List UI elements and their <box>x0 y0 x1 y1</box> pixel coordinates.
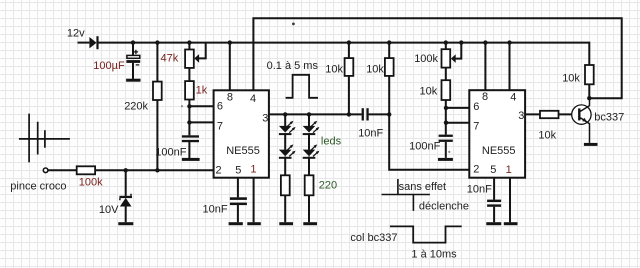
IC U1 NE555 <box>214 90 269 177</box>
svg-text:1: 1 <box>506 164 512 176</box>
svg-text:10V: 10V <box>99 204 119 216</box>
svg-text:10k: 10k <box>562 73 580 85</box>
ground (under 100uF) <box>126 79 140 82</box>
svg-text:100µF: 100µF <box>93 60 125 72</box>
svg-text:7: 7 <box>217 121 223 133</box>
wire 100k wiper <box>455 43 462 59</box>
wire pin7 U2 <box>446 122 469 124</box>
capacitor 10nF U2 pin5 <box>487 200 501 207</box>
svg-text:2: 2 <box>216 165 222 177</box>
svg-text:NE555: NE555 <box>482 145 516 157</box>
resistor 220k <box>153 82 162 100</box>
svg-text:100k: 100k <box>414 53 438 65</box>
wire 100k to pin2 U1 <box>95 169 213 171</box>
wire pin6 U1 <box>189 105 213 107</box>
svg-text:1: 1 <box>250 164 256 176</box>
capacitor C2 100nF <box>182 135 199 142</box>
svg-text:10nF: 10nF <box>203 204 228 216</box>
svg-text:100nF: 100nF <box>155 147 186 159</box>
resistor 220 led1 <box>281 175 290 195</box>
ground (under zener) <box>118 222 133 225</box>
svg-text:1k: 1k <box>196 85 208 97</box>
resistor 10k collector <box>585 65 594 84</box>
svg-text:10nF: 10nF <box>358 128 383 140</box>
waveform 1 a 10ms <box>390 226 462 242</box>
svg-text:0.1 à 5 ms: 0.1 à 5 ms <box>267 60 319 72</box>
ground (under 100nF U1) <box>182 158 200 161</box>
svg-text:2: 2 <box>473 164 479 176</box>
resistor 10k U2 timing <box>442 80 451 100</box>
svg-text:pince croco: pince croco <box>10 180 66 192</box>
svg-text:10k: 10k <box>325 64 343 76</box>
terminal pince croco <box>43 168 48 173</box>
wire pin8 U1 <box>229 43 231 90</box>
resistor 10k R4 <box>345 58 354 76</box>
svg-text:47k: 47k <box>161 53 179 65</box>
ground (led chain 1) <box>279 222 293 225</box>
svg-text:100k: 100k <box>79 176 103 188</box>
LED D5 <box>303 144 320 158</box>
potentiometer 100k <box>442 49 456 67</box>
wire pin5 U2 to 10nF <box>493 178 495 223</box>
ground (pin1 U1) <box>247 222 260 225</box>
svg-text:5: 5 <box>490 164 496 176</box>
svg-text:3: 3 <box>262 113 268 125</box>
wire coupling node to pin2 U2 <box>389 114 469 169</box>
pince croco sketch <box>19 114 70 163</box>
svg-text:100nF: 100nF <box>409 141 440 153</box>
svg-text:3: 3 <box>518 110 524 122</box>
svg-text:8: 8 <box>227 91 233 103</box>
wire pince croco to 100k <box>48 169 77 171</box>
svg-text:220: 220 <box>319 180 337 192</box>
svg-text:bc337: bc337 <box>594 112 624 124</box>
resistor 100k input <box>77 166 95 174</box>
wire 12v input <box>78 42 90 44</box>
wire pin5 U1 to 10nF <box>237 178 239 223</box>
wire pin8 U2 <box>484 43 486 90</box>
ground (emitter) <box>584 143 598 146</box>
ground (pin5 U2) <box>486 222 501 225</box>
node pin6 pin7 U2 junctions <box>444 106 448 110</box>
wire 10k collector resistor bottom <box>588 84 590 98</box>
svg-text:8: 8 <box>482 91 488 103</box>
capacitor 100nF U2 <box>439 135 453 142</box>
wire 100uF stem <box>132 43 134 79</box>
capacitor C1 100uF electrolytic <box>126 50 140 65</box>
resistor 10k R5 <box>385 58 394 76</box>
node pin6 pin7 U1 junctions <box>187 104 191 108</box>
wire pin4 U1 to top loop to collector node <box>253 18 621 98</box>
svg-text:1 à 10ms: 1 à 10ms <box>411 248 457 260</box>
svg-text:déclenche: déclenche <box>419 200 469 212</box>
wire zener stem <box>125 170 127 222</box>
wire 47k wiper <box>198 43 206 58</box>
ground (100nF U2) <box>438 158 453 161</box>
ground (pin1 U2) <box>504 222 518 225</box>
svg-text:col bc337: col bc337 <box>350 232 397 244</box>
svg-text:10k: 10k <box>366 64 384 76</box>
resistor 220 led2 <box>305 175 314 195</box>
wire pin6 U2 <box>446 107 469 109</box>
svg-text:10k: 10k <box>538 129 556 141</box>
wire pin3 U1 output <box>269 113 389 115</box>
svg-text:7: 7 <box>473 120 479 132</box>
node rail junctions <box>131 40 135 44</box>
wire 10k R5 stem <box>388 43 390 114</box>
wire pin1 U2 to ground <box>509 178 511 223</box>
wire pin3 U2 to base resistor <box>525 113 578 115</box>
stray mark <box>292 23 295 26</box>
wire 10k R4 stem <box>348 43 350 114</box>
svg-text:4: 4 <box>510 91 516 103</box>
LED D4 <box>303 121 320 135</box>
svg-text:leds: leds <box>321 135 342 147</box>
node input junctions <box>124 168 128 172</box>
wire 220k stem <box>156 43 158 170</box>
wire led chain 2 <box>308 114 310 222</box>
potentiometer 47k <box>185 50 199 68</box>
transistor Q1 bc337 <box>572 98 591 143</box>
IC U2 NE555 <box>469 90 525 178</box>
wire led chain 1 <box>284 114 286 222</box>
wire pin1 U1 to ground <box>253 178 255 223</box>
ground (led chain 2) <box>303 222 317 225</box>
wire pin7 U1 <box>189 121 213 123</box>
diode D1 input <box>89 36 98 49</box>
svg-text:10k: 10k <box>420 86 438 98</box>
zener diode 10V <box>119 194 132 207</box>
svg-text:5: 5 <box>235 165 241 177</box>
svg-text:10nF: 10nF <box>467 183 492 195</box>
annotation leader sans effet / declenche <box>382 179 430 211</box>
LED D3 <box>279 144 296 158</box>
ground (pin5 U1) <box>229 222 243 225</box>
svg-text:sans effet: sans effet <box>399 181 447 193</box>
LED D2 <box>279 121 296 135</box>
svg-text:6: 6 <box>473 101 479 113</box>
resistor 1k <box>185 81 194 99</box>
svg-text:NE555: NE555 <box>226 145 260 157</box>
node collector junction <box>587 96 591 100</box>
resistor 10k base <box>540 111 559 118</box>
wire +12V rail <box>98 43 589 65</box>
wire 47k 1k 100nF chain <box>188 43 190 158</box>
wire 100k pot 10k 100nF chain <box>445 43 447 158</box>
svg-text:6: 6 <box>217 101 223 113</box>
waveform 0.1 a 5 ms <box>286 75 318 98</box>
svg-text:12v: 12v <box>67 28 85 40</box>
wire pin4 U2 <box>509 43 511 90</box>
capacitor 10nF U1 pin5 <box>230 197 247 205</box>
capacitor 10nF coupling <box>362 108 369 120</box>
node pin3 U1 junctions <box>283 112 287 116</box>
svg-text:4: 4 <box>250 93 256 105</box>
svg-text:220k: 220k <box>124 100 148 112</box>
